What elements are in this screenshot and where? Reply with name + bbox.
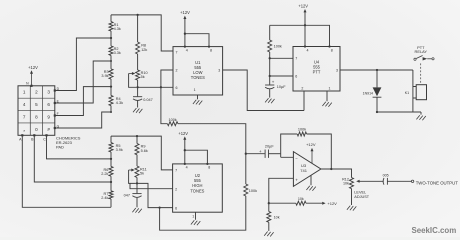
svg-text:+12V: +12V — [327, 201, 337, 206]
ground at high-tone timing cap — [132, 208, 141, 213]
svg-text:4: 4 — [186, 166, 188, 170]
svg-text:0.047: 0.047 — [143, 98, 153, 102]
+12V supply to U1 pins 4 and 8 — [180, 10, 210, 48]
svg-text:5: 5 — [35, 102, 38, 107]
svg-text:1: 1 — [192, 215, 194, 219]
wire R12 bottom to ground — [351, 189, 353, 205]
IC U2 555 HIGH TONES box — [173, 164, 223, 212]
svg-text:741: 741 — [300, 168, 307, 173]
svg-text:TONES: TONES — [190, 188, 204, 193]
wire summing node down to high-tone mix resistor — [245, 154, 247, 184]
capacitor 20uF coupling — [246, 145, 281, 158]
wire relay branch vertical — [412, 70, 414, 112]
capacitor 0.047 (high tone timing) — [124, 183, 142, 207]
PTT relay switch contacts — [414, 56, 434, 61]
resistor R8 12k — [136, 42, 148, 54]
svg-text:7: 7 — [295, 57, 297, 61]
wire op-amp non-inverting input to bias divider — [268, 178, 294, 204]
wire U1 pin 3 output to U4 pin 2 trigger — [223, 70, 304, 111]
svg-text:1: 1 — [194, 88, 196, 92]
svg-text:2: 2 — [175, 187, 177, 191]
resistor 10k bias to ground — [267, 203, 280, 231]
svg-text:1: 1 — [23, 90, 26, 95]
svg-text:2.4k: 2.4k — [101, 196, 108, 200]
svg-text:+: + — [272, 79, 275, 84]
svg-text:K1: K1 — [405, 91, 409, 95]
keypad CHOMERICS ER-2623 pad (3x4 matrix) — [18, 86, 55, 136]
ground at op-amp — [306, 186, 315, 191]
svg-text:7: 7 — [23, 114, 26, 119]
ground at U1 pin 1 — [193, 100, 202, 105]
wire high-tone chain top to U2 pin 7 — [111, 135, 173, 170]
svg-text:*: * — [23, 129, 25, 134]
keypad column terminals A B C labels — [19, 137, 46, 141]
keypad pin pads — [21, 85, 56, 137]
U2 pin 1 ground stub — [195, 212, 197, 220]
svg-text:6: 6 — [295, 75, 297, 79]
svg-text:4: 4 — [23, 102, 26, 107]
resistor R5 3.9k — [109, 143, 123, 153]
resistor R4 4.3k — [109, 96, 123, 106]
+12V supply to U4 pins 4 and 8 — [270, 4, 331, 48]
svg-text:4: 4 — [186, 48, 188, 52]
svg-text:ADJUST: ADJUST — [354, 195, 369, 199]
svg-text:10k: 10k — [274, 216, 280, 220]
svg-text:TWO-TONE OUTPUT: TWO-TONE OUTPUT — [416, 181, 459, 186]
wire relay bottom to ground — [376, 111, 421, 113]
wire R2-R3 with node at row E tap — [110, 55, 112, 69]
wire top rail to R8 — [137, 15, 139, 42]
svg-text:2.2k: 2.2k — [101, 172, 108, 176]
wire R3-R4 with node at row F tap — [110, 79, 112, 96]
U4 pin 1 ground stub — [326, 91, 328, 101]
capacitor 0.05 output coupling — [383, 174, 412, 185]
svg-text:12k: 12k — [141, 48, 147, 52]
svg-text:PAD: PAD — [56, 144, 64, 149]
keypad label CHOMERICS ER-2623 PAD — [56, 136, 81, 150]
wire R5-R6 with node at column C tap — [110, 152, 112, 167]
svg-text:6: 6 — [176, 86, 178, 90]
wire U1 timing node down to mixing resistor — [161, 87, 168, 123]
svg-text:005: 005 — [383, 174, 389, 178]
wire mix resistor to summing node — [178, 124, 247, 155]
potentiometer R12 10k LEVEL ADJUST — [342, 178, 384, 200]
resistor R6 2.2k — [101, 167, 113, 177]
resistor R7 2.4k — [101, 191, 113, 200]
wire row F to R3/R4 junction — [55, 87, 111, 116]
svg-text:4: 4 — [307, 48, 309, 52]
svg-text:#: # — [47, 127, 50, 132]
svg-text:2: 2 — [176, 69, 178, 73]
resistor R1 4.3k — [109, 22, 121, 31]
wire column A to R7 bottom — [22, 135, 111, 207]
resistor R2 3.3k — [109, 46, 121, 56]
wire R7 bottom to column A wire — [110, 199, 112, 207]
wire row E to R2/R3 junction — [55, 61, 111, 103]
resistor R3 3.9k — [101, 69, 113, 79]
wire summing input to op-amp inverting input — [281, 154, 294, 158]
wire R1-R2 with node at row D tap — [110, 31, 112, 46]
wire op-amp output to level pot R12 — [321, 168, 352, 178]
svg-text:PTT: PTT — [313, 70, 321, 75]
resistor R9 5.6k — [135, 144, 148, 155]
wire row D to R1/R2 junction — [55, 38, 111, 91]
+12V supply to keypad common (pin N) — [26, 65, 38, 86]
svg-text:2: 2 — [301, 87, 303, 91]
wire R11 wiper loop to bottom terminal — [129, 170, 136, 183]
wire column C to R5/R6 junction — [47, 135, 112, 159]
ground at R12 — [347, 206, 356, 211]
wire R9 to R11 — [136, 155, 138, 166]
wire +12V rail down to 100k — [269, 25, 271, 40]
potentiometer R11 5k — [129, 166, 147, 178]
svg-text:+12V: +12V — [28, 65, 38, 70]
potentiometer R10 5k — [129, 70, 148, 80]
svg-text:+12V: +12V — [178, 131, 188, 136]
resistor 100k feedback — [281, 128, 332, 169]
svg-text:8: 8 — [210, 48, 212, 52]
svg-text:100k: 100k — [298, 128, 306, 132]
label PTT RELAY — [415, 45, 428, 54]
svg-text:1N914: 1N914 — [363, 91, 373, 95]
wire R6-R7 with node at column B tap — [110, 176, 112, 191]
svg-text:9: 9 — [47, 114, 50, 119]
wire high-tone mix resistor to U2 timing node — [158, 196, 245, 230]
svg-text:3: 3 — [218, 69, 220, 73]
svg-text:+: + — [259, 149, 262, 154]
wire low-tone chain top — [110, 15, 112, 22]
wire R4 bottom to row G tap — [110, 106, 112, 113]
diode D1 1N914 — [363, 70, 382, 112]
svg-text:2: 2 — [35, 90, 38, 95]
svg-text:10µF: 10µF — [277, 85, 286, 89]
wire R10 wiper loop to bottom terminal — [129, 74, 137, 88]
ground at relay — [416, 112, 425, 120]
svg-text:8: 8 — [208, 166, 210, 170]
svg-text:3: 3 — [47, 90, 50, 95]
wire R11 bottom node to U2 pin 6 via jog — [136, 178, 173, 208]
svg-text:0: 0 — [35, 127, 38, 132]
svg-text:10k: 10k — [298, 197, 304, 201]
svg-text:4.3k: 4.3k — [114, 27, 121, 31]
svg-text:4.3k: 4.3k — [116, 101, 123, 105]
svg-text:3.9k: 3.9k — [116, 148, 123, 152]
ground at U2 pin 1 — [191, 220, 200, 225]
svg-text:6: 6 — [175, 206, 177, 210]
+12V supply to op-amp — [306, 142, 316, 164]
svg-text:C: C — [43, 137, 46, 141]
svg-text:+12V: +12V — [180, 10, 190, 15]
resistor 100k low-tone mix — [167, 118, 178, 126]
svg-text:3.3k: 3.3k — [114, 51, 121, 55]
dashed mechanical link relay to contacts — [420, 63, 422, 84]
svg-text:5k: 5k — [140, 172, 144, 176]
svg-text:10k: 10k — [343, 182, 349, 186]
+12V supply to U2 pins 4 and 8 — [178, 131, 208, 165]
svg-text:5k: 5k — [141, 75, 145, 79]
wire U2 pin 2 to timing node — [130, 183, 173, 188]
wire chain top to R5 — [110, 136, 112, 143]
wire R8 to R10 — [137, 54, 139, 70]
keypad row terminals D E F G labels — [57, 87, 60, 129]
op-amp U3 741 triangle — [293, 152, 321, 187]
svg-text:LEVEL: LEVEL — [354, 191, 366, 195]
wire R10 bottom node to U1 pin 6 — [136, 80, 173, 88]
svg-text:100k: 100k — [249, 189, 257, 193]
output terminal TWO-TONE OUTPUT — [411, 180, 458, 186]
svg-text:8: 8 — [331, 48, 333, 52]
wire chain top to U1 pin 7 — [111, 14, 173, 51]
wire U4 pin 3 to relay circuit — [340, 69, 413, 71]
svg-text:TONES: TONES — [191, 75, 205, 80]
wire row G to R4 bottom — [55, 112, 111, 128]
svg-text:047: 047 — [124, 193, 130, 197]
IC U4 555 PTT box — [293, 47, 340, 92]
relay coil K1 — [405, 85, 427, 100]
ground at U4 pin 1 — [322, 102, 331, 107]
svg-text:7: 7 — [175, 169, 177, 173]
ground at 10uF cap — [265, 98, 274, 103]
ground at low-tone timing cap — [133, 108, 142, 113]
svg-text:1: 1 — [329, 87, 331, 91]
svg-text:SeekIC.com: SeekIC.com — [412, 226, 457, 235]
svg-text:8: 8 — [35, 114, 38, 119]
svg-text:100k: 100k — [274, 45, 282, 49]
capacitor 0.047 (low tone timing) — [133, 87, 153, 107]
wire column B to R6/R7 junction — [34, 135, 111, 182]
ground at bias divider — [264, 232, 273, 237]
IC U1 555 LOW TONES box — [173, 47, 223, 95]
svg-text:6: 6 — [47, 102, 50, 107]
op-amp ground pin stub — [310, 175, 312, 185]
wire 100k to U4 pin 7 node — [269, 52, 293, 59]
U1 pin 1 ground stub — [197, 95, 199, 99]
wire U1 pin 2 tie to pin 6 node — [160, 70, 173, 88]
svg-text:3: 3 — [336, 69, 338, 73]
svg-text:5.6k: 5.6k — [141, 149, 148, 153]
svg-text:7: 7 — [176, 51, 178, 55]
svg-text:RELAY: RELAY — [415, 49, 428, 54]
wire node to U4 pin 6 — [269, 58, 293, 77]
resistor 100k high-tone mix — [244, 184, 257, 196]
svg-text:3.9k: 3.9k — [101, 74, 108, 78]
resistor 10k bias to +12V — [269, 197, 337, 206]
wire chain top to R9 — [136, 136, 138, 143]
svg-text:20µF: 20µF — [265, 145, 274, 149]
resistor 100k (U4 timing) — [268, 40, 282, 52]
svg-text:+12V: +12V — [298, 4, 308, 9]
svg-text:100k: 100k — [168, 118, 176, 122]
capacitor 10uF (U4 timing) — [265, 76, 286, 98]
svg-text:+12V: +12V — [306, 142, 316, 147]
